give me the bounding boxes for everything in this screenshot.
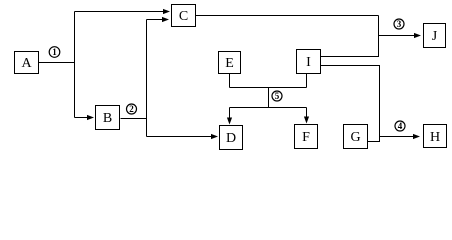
svg-text:H: H bbox=[430, 130, 440, 145]
svg-text:E: E bbox=[225, 56, 234, 71]
svg-text:D: D bbox=[226, 131, 236, 146]
svg-text:A: A bbox=[21, 56, 32, 71]
svg-text:C: C bbox=[179, 9, 188, 24]
svg-text:4: 4 bbox=[398, 121, 403, 131]
svg-text:B: B bbox=[103, 111, 112, 126]
svg-text:5: 5 bbox=[275, 91, 280, 101]
svg-text:I: I bbox=[306, 55, 311, 70]
svg-text:F: F bbox=[302, 130, 310, 145]
svg-text:G: G bbox=[350, 130, 360, 145]
svg-text:2: 2 bbox=[129, 104, 134, 114]
svg-text:3: 3 bbox=[397, 19, 402, 29]
svg-text:1: 1 bbox=[52, 47, 57, 57]
svg-text:J: J bbox=[432, 29, 438, 44]
